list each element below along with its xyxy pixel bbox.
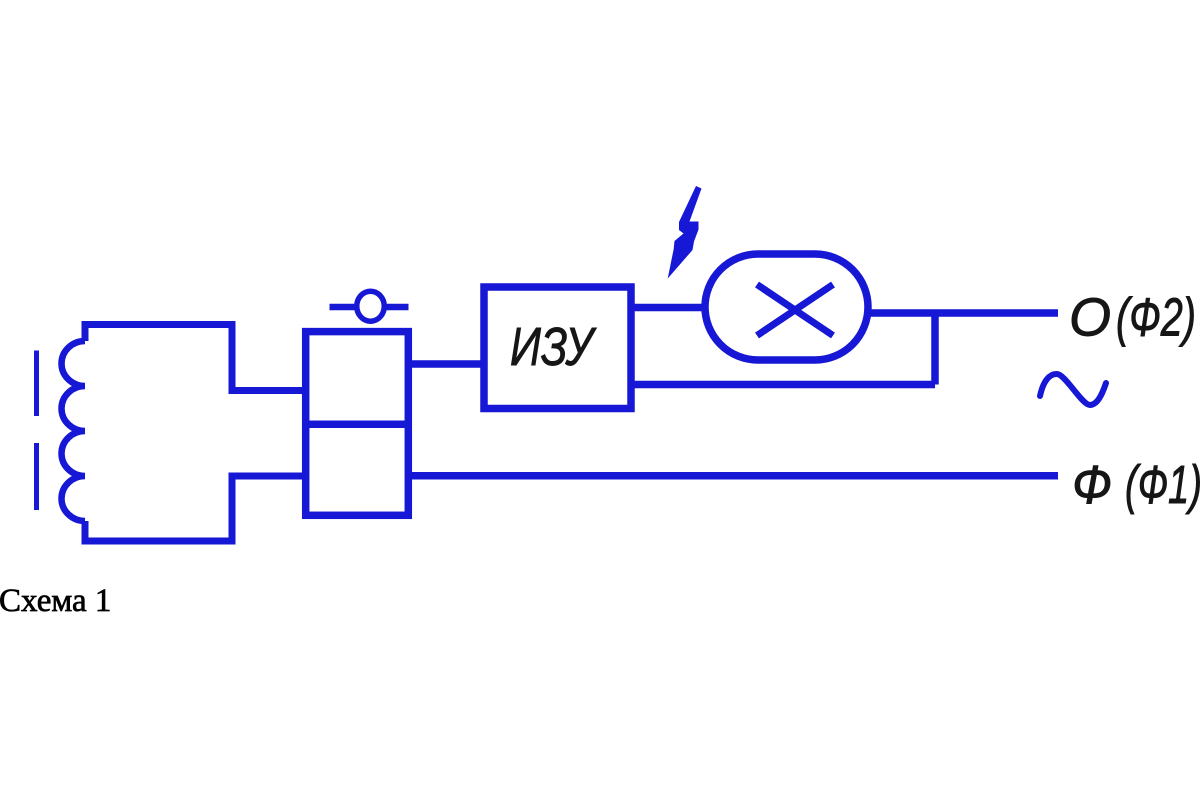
svg-text:Схема 1: Схема 1 <box>0 583 111 619</box>
svg-text:(Ф1): (Ф1) <box>1125 455 1200 515</box>
svg-text:(Ф2): (Ф2) <box>1116 288 1196 348</box>
svg-text:ИЗУ: ИЗУ <box>510 317 597 377</box>
svg-text:О: О <box>1069 288 1111 348</box>
svg-text:Ф: Ф <box>1072 455 1112 515</box>
